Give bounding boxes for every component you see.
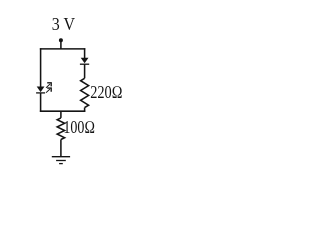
svg-text:3 V: 3 V	[52, 14, 75, 34]
diode D2 (pointing down)	[80, 58, 89, 64]
wire: top rail	[40, 48, 86, 50]
wire: right rail between diode and 220 ohm resistor	[84, 64, 86, 78]
wire: right rail (top segment above diode)	[84, 48, 86, 58]
resistor R2 100 ohm (zigzag)	[57, 118, 64, 140]
wire: left rail (top segment above LED)	[40, 48, 42, 87]
LED D1 (anode top, cathode bar below, pointing down)	[36, 87, 45, 93]
wire: bottom rail	[40, 110, 86, 112]
wire: right rail below 220 ohm resistor	[84, 108, 86, 112]
wire: stub from 3V node down to top rail	[60, 40, 62, 49]
wire: from 100 ohm resistor down to ground	[60, 140, 62, 157]
svg-text:220Ω: 220Ω	[90, 82, 123, 102]
resistor R1 220 ohm (zigzag)	[81, 78, 89, 107]
wire: middle stub from bottom rail to 100 ohm resistor	[60, 111, 62, 118]
LED D1 emission arrows (pointing up-right)	[46, 83, 51, 93]
node dot: 3V supply node	[59, 38, 63, 42]
svg-text:100Ω: 100Ω	[63, 117, 95, 137]
wire: left rail (bottom segment below LED)	[40, 93, 42, 112]
ground symbol (three bars)	[52, 157, 70, 164]
